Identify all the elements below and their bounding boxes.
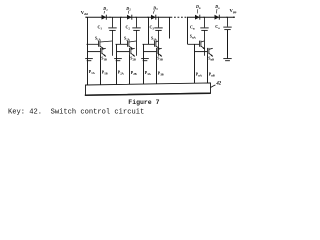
ground plate on P3A line (141, 59, 149, 61)
svg-text:SnB: SnB (208, 56, 214, 61)
wire: lead to S2B (117, 51, 130, 53)
transistor SnA (188, 41, 205, 50)
wire: P2B line (129, 54, 131, 84)
svg-text:SnA: SnA (190, 35, 197, 40)
svg-text:P2B: P2B (131, 71, 137, 76)
diode Do (215, 15, 220, 20)
svg-text:Key: 42. Switch control circu: Key: 42. Switch control circuit (8, 108, 144, 116)
capacitor C2 (132, 17, 140, 56)
transistor SnB (208, 48, 213, 57)
diode Dn (195, 15, 200, 20)
ground Co (223, 59, 231, 61)
node rail junction x=136 (135, 17, 136, 18)
wire: Vdd top supply rail (86, 16, 171, 18)
diode D2 (127, 15, 132, 20)
wire: PnB line (207, 54, 209, 83)
wire: P1A line from Vdd node (87, 17, 89, 85)
label D1 (102, 6, 108, 13)
svg-text:S3A: S3A (151, 37, 158, 42)
svg-text:Figure 7: Figure 7 (128, 99, 159, 106)
svg-text:Do: Do (214, 4, 220, 10)
node rail junction x=121 (120, 17, 121, 18)
wire: Co lower line (227, 30, 229, 59)
transistor S2B (130, 48, 135, 57)
svg-text:D3: D3 (152, 5, 158, 11)
svg-text:Co: Co (215, 24, 220, 30)
svg-text:P3A: P3A (145, 71, 152, 76)
transistor S1A (87, 41, 113, 50)
node rail junction x=110 (109, 17, 110, 18)
transistor S3A (143, 41, 160, 50)
svg-text:Cn: Cn (190, 25, 195, 31)
wire: P1B line (100, 54, 102, 85)
svg-text:C1: C1 (98, 25, 103, 31)
svg-text:Vdd: Vdd (81, 10, 88, 16)
node Vpp terminal (233, 16, 235, 18)
svg-text:S3B: S3B (157, 56, 163, 61)
svg-text:PnA: PnA (196, 72, 203, 77)
wire: rail right section to Vpp (188, 16, 235, 18)
wire: node drop to switch S2A (120, 17, 122, 44)
svg-text:C2: C2 (126, 25, 131, 31)
node rail junction x=148 (147, 17, 148, 18)
ground plate on P1A line (85, 59, 93, 61)
svg-text:P3B: P3B (158, 72, 164, 77)
svg-text:Dn: Dn (195, 4, 201, 10)
wire: node drop to switch SnA (187, 17, 189, 44)
svg-text:42: 42 (215, 82, 221, 87)
svg-text:PnB: PnB (209, 73, 215, 78)
svg-text:S2A: S2A (124, 37, 131, 42)
node rail junction x=158.5 (158, 17, 159, 18)
svg-text:S1B: S1B (101, 56, 107, 61)
capacitor Co output (223, 17, 231, 55)
label D3 (152, 5, 158, 13)
node rail junction x=204 (203, 17, 204, 18)
svg-text:S2B: S2B (130, 56, 136, 61)
wire: continuation drop after cell 3 (169, 17, 171, 38)
label Do (214, 4, 220, 13)
wire: lead to S1B (88, 51, 101, 53)
svg-text:P1A: P1A (89, 70, 96, 75)
transistor S1B (101, 48, 106, 57)
wire: dashed rail continuation (171, 16, 189, 18)
wire: node drop to switch S3A (148, 17, 150, 44)
capacitor C1 (108, 17, 116, 56)
label 42 with leader (211, 82, 222, 88)
capacitor Cn (200, 17, 208, 56)
capacitor C3 (154, 17, 162, 56)
svg-text:D1: D1 (102, 6, 108, 12)
diode D1 (102, 15, 107, 20)
wire: P3A line (143, 44, 145, 84)
svg-text:S1A: S1A (95, 37, 102, 42)
diode D3 (151, 15, 156, 20)
wire: P3B line (156, 54, 158, 84)
switch control box 42 (85, 83, 211, 95)
node rail junction x=227 (226, 17, 227, 18)
wire: PnA line (194, 44, 196, 83)
svg-text:P2A: P2A (118, 71, 125, 76)
ground plate on P2A line (114, 59, 122, 61)
node rail junction x=86 (85, 17, 86, 18)
wire: lead to SnB (195, 51, 208, 53)
svg-text:P1B: P1B (102, 70, 108, 75)
label D2 (125, 6, 131, 14)
wire: lead to S3B (144, 51, 157, 53)
transistor S3B (157, 48, 162, 57)
svg-text:C3: C3 (150, 25, 155, 31)
svg-text:Vpp: Vpp (230, 8, 237, 14)
wire: P2A line (116, 44, 118, 84)
label Dn (195, 4, 201, 13)
node rail junction x=187.5 (187, 17, 188, 18)
transistor S2A (116, 41, 137, 50)
